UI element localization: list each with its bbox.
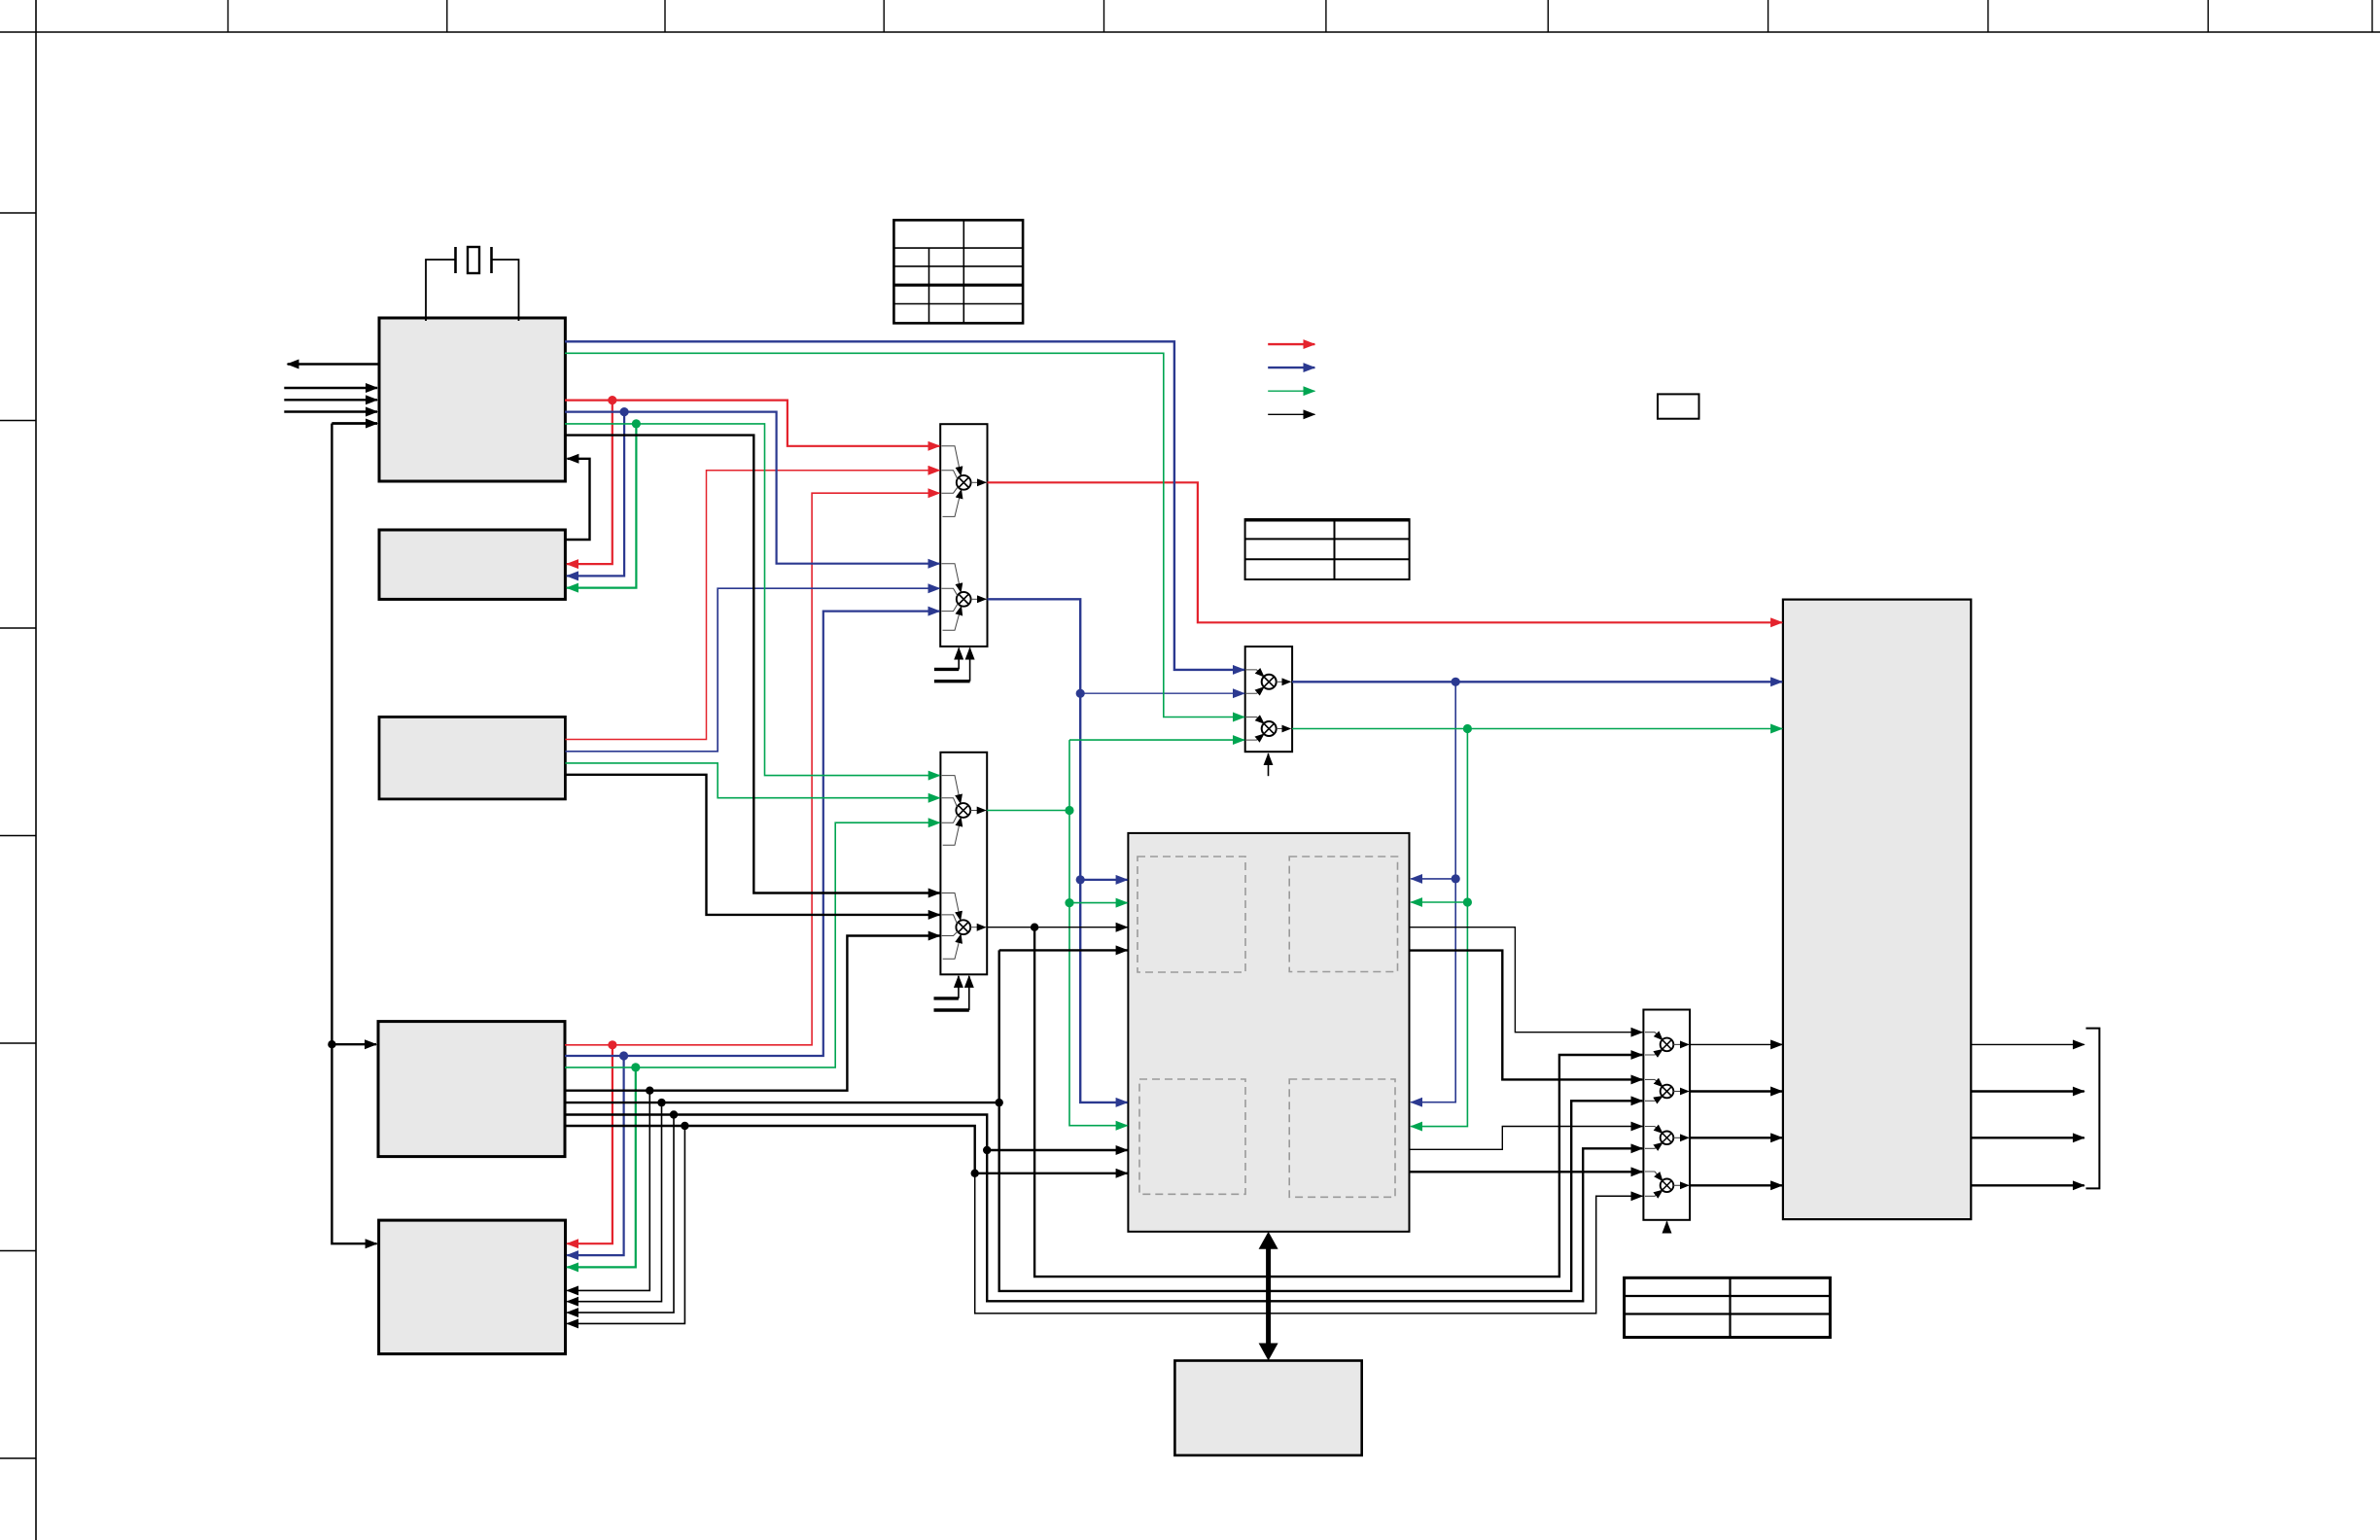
table T2 (1245, 519, 1410, 579)
dashed sub-block U6c (1139, 1079, 1245, 1194)
frame tick top 8 (1767, 0, 1769, 32)
wire K19c branch to block4 (332, 1043, 376, 1045)
frame tick top 10 (2207, 0, 2209, 32)
wire K22a mux2 gain stub1 (934, 997, 959, 999)
mixer M4d (1645, 1172, 1689, 1196)
wire K9 center out1 to mix4 m1a (1410, 927, 1643, 1032)
wire R4 block4 red to mux1 in3 (565, 493, 940, 1045)
mixer M4c (1645, 1127, 1689, 1149)
wire K19b vertical bus (332, 424, 376, 1244)
node black J9 (670, 1110, 678, 1118)
wire B3 blue drop to block2 (567, 412, 624, 577)
wire B7 mux1 blue out vertical bus (988, 599, 1128, 1102)
dashed sub-block U6b (1289, 857, 1397, 972)
wire K22b mux2 gain stub1 arrow (958, 976, 960, 998)
frame tick top 9 (1987, 0, 1989, 32)
wire K5 block4 black3 bus (565, 1115, 1642, 1302)
block U7 output IC (1783, 600, 1971, 1220)
mux block M1 (940, 424, 987, 647)
frame tick top 5 (1103, 0, 1105, 32)
wire R3 block3 red to mux1 in2 (565, 471, 939, 740)
crystal X1 body (468, 247, 479, 273)
mixer M1a (942, 446, 987, 517)
wire K6a into center in4 (975, 1172, 1128, 1174)
wire K6 block4 black4 bus (565, 1126, 975, 1173)
wire B8b branch into center right (1411, 878, 1455, 880)
node green J2 (631, 1063, 640, 1071)
frame tick top 7 (1547, 0, 1549, 32)
legend arrow blue (1268, 367, 1314, 368)
wire K21b mux1 gain stub1 arrow (958, 648, 960, 670)
wire K4b into center in2 (999, 949, 1128, 951)
wire B7a branch to mux3 in2 (1080, 692, 1244, 694)
wire K7a drop to block5 k1 (567, 1091, 649, 1291)
wire K21c mux1 gain stub2 (934, 680, 970, 682)
crystal X1 left plate (454, 247, 457, 273)
sheet frame top border (0, 31, 2380, 33)
frame tick top 11 (2371, 0, 2373, 32)
frame tick left 2 (0, 420, 36, 422)
node green J6 (1463, 897, 1472, 906)
wire R6 mux1 red out to block U7 (988, 482, 1783, 622)
block U5 (379, 1220, 566, 1354)
wire K5a into center in3 (987, 1149, 1127, 1151)
mixer M3b (1246, 717, 1290, 741)
mux block M2 (940, 752, 987, 975)
wire K18c block1 left in3 (284, 410, 377, 412)
wire K22d mux2 gain stub2 arrow (968, 976, 970, 1010)
wire R1 block1 red out to mux1 in1 (565, 401, 940, 446)
wire B1 block1 blue top to mux3 in1 (565, 341, 1244, 670)
wire K13d mix4 out4 (1690, 1184, 1782, 1186)
wire B4 block3 blue to mux1 in5 (565, 588, 939, 752)
block U3 (379, 717, 565, 799)
wire crystal right (492, 260, 519, 321)
wire K24 mix4 gain stub (1666, 1222, 1668, 1233)
wire K12 center out4 to mix4 m4a (1410, 1171, 1643, 1172)
wire K19 left bus to block1 in4 (332, 422, 377, 424)
wire K13a mix4 out1 (1690, 1043, 1782, 1045)
legend arrow black (1268, 413, 1314, 415)
wire G3 green drop to block2 (567, 424, 636, 588)
wire K11 center out3 to mix4 m3a (1410, 1127, 1643, 1150)
node blue J2 (619, 1051, 628, 1060)
node blue J1 (620, 407, 629, 416)
table T3 (1625, 1277, 1831, 1337)
arrowhead up into center (1259, 1232, 1278, 1249)
wire B6 blue drop to block5 (567, 1056, 623, 1255)
block U6 center DSP (1128, 833, 1409, 1232)
wire K17 block1 left out arrow (288, 363, 379, 365)
node red J1 (608, 396, 616, 404)
wire K21a mux1 gain stub1 (934, 668, 959, 671)
wire K18a block1 left in1 (284, 387, 377, 389)
wire G1 block1 green top to mux3 in3 (565, 353, 1244, 717)
wire K10 center out2 to mix4 m2a (1410, 951, 1643, 1080)
wire K7b drop to block5 k2 (567, 1102, 661, 1302)
wire K19a arrowhead into block1 (332, 422, 377, 424)
block U1 main IC (379, 318, 565, 481)
frame tick left 4 (0, 835, 36, 837)
wire K2 block3 black to mux2 in5 (565, 775, 939, 915)
arrowhead down into bottom block (1259, 1344, 1278, 1361)
wire K4a vertical (999, 950, 1643, 1291)
wire K14b block U7 out2 (1971, 1090, 2084, 1092)
mux block M3 (1245, 647, 1292, 752)
mux block M4 (1643, 1010, 1690, 1220)
wire K18b block1 left in2 (284, 399, 377, 401)
mixer M4a (1645, 1032, 1689, 1055)
wire B5 block4 blue to mux1 in6 (565, 612, 940, 1056)
wire G5 block4 green to mux2 in3 (565, 822, 940, 1067)
wire K8 mux2 black out to center in1 (987, 927, 1127, 928)
crystal X1 right plate (490, 247, 493, 273)
sheet frame left border (35, 0, 37, 1540)
output bracket (2086, 1029, 2100, 1189)
node red J2 (608, 1040, 616, 1049)
node green J3 (1065, 806, 1073, 815)
wire K14d block U7 out4 (1971, 1184, 2084, 1186)
node green J5 (1463, 724, 1472, 733)
legend arrow green (1268, 390, 1314, 392)
wire B8 mux3 blue out to block U7 (1292, 681, 1782, 682)
frame tick left 5 (0, 1042, 36, 1044)
node black J10 (681, 1122, 688, 1130)
frame tick top 6 (1325, 0, 1327, 32)
node green J4 (1065, 898, 1073, 907)
frame tick left 1 (0, 212, 36, 214)
frame tick left 6 (0, 1250, 36, 1252)
wire K16 block2 feedback to block1 (565, 459, 589, 540)
wire G7 mux2 green out vertical bus (1069, 739, 1244, 741)
node black J7 (646, 1087, 653, 1095)
dashed sub-block U6d (1289, 1079, 1395, 1197)
node black J6 (971, 1170, 979, 1177)
wire K13c mix4 out3 (1690, 1137, 1782, 1138)
wire G7c branch to center (1069, 902, 1128, 904)
wire G8a green drop right of center (1411, 729, 1467, 1127)
wire G8b branch into center right (1411, 901, 1467, 903)
wire K14a block U7 out1 (1971, 1043, 2084, 1045)
node black J8 (657, 1099, 665, 1106)
block U2 (379, 530, 565, 599)
mixer M2a (942, 776, 986, 846)
node blue J4 (1076, 875, 1085, 884)
node black J5 (983, 1146, 991, 1154)
wire G6 green drop to block5 (567, 1067, 636, 1268)
mixer M2b (942, 893, 986, 960)
node blue J5 (1452, 678, 1460, 686)
wire K6t thin tail to mix4 m4b (975, 1173, 1643, 1313)
wire G7b mux2 out join (987, 810, 1069, 812)
wire R5 red drop to block5 (567, 1045, 612, 1243)
wire K8a U loop to mix4 m1b (1034, 927, 1642, 1277)
legend arrow red (1268, 343, 1314, 345)
frame tick left 3 (0, 627, 36, 629)
wire K21d mux1 gain stub2 arrow (969, 648, 971, 682)
wire K3 block4 black1 to mux2 in6 (565, 936, 940, 1091)
frame tick left 7 (0, 1457, 36, 1459)
wire G2 block1 green to mux2 in1 (565, 424, 940, 776)
table T1 (893, 220, 1023, 323)
wire B8a blue drop right of center (1411, 682, 1455, 1102)
wire R2 red drop to block2 (567, 401, 612, 564)
frame tick top 3 (664, 0, 666, 32)
wire K25 center to bottom block double arrow (1266, 1241, 1271, 1352)
mixer M1b (942, 564, 987, 631)
node green J1 (632, 419, 641, 428)
block U8 bottom memory (1174, 1361, 1361, 1455)
node blue J3 (1076, 689, 1085, 698)
wire K4 block4 black2 bus (565, 1102, 999, 1103)
node black J4 (995, 1099, 1002, 1106)
mixer M4b (1645, 1079, 1689, 1101)
wire B7b branch to center block (1080, 879, 1127, 881)
wire K7c drop to block5 k3 (567, 1115, 674, 1313)
note box (1658, 394, 1699, 418)
wire G4 block3 green to mux2 in2 (565, 763, 939, 798)
block U4 (378, 1022, 565, 1157)
wire K23 mux3 gain stub (1268, 753, 1270, 776)
wire crystal left (426, 260, 456, 321)
frame tick top 2 (446, 0, 448, 32)
wire G7a vertical (1069, 740, 1128, 1126)
wire K22c mux2 gain stub2 (934, 1008, 969, 1011)
wire K14c block U7 out3 (1971, 1137, 2084, 1138)
wire K7d drop to block5 k4 (567, 1126, 684, 1323)
node black J11 (1031, 924, 1038, 931)
frame tick top 1 (227, 0, 229, 32)
frame tick top 4 (883, 0, 885, 32)
wire G8 mux3 green out to block U7 (1292, 728, 1782, 730)
node black J12 (328, 1040, 335, 1048)
wire K13b mix4 out2 (1690, 1090, 1782, 1092)
wire K1 block1 black to mux2 in4 (565, 436, 940, 893)
node blue J6 (1452, 874, 1460, 883)
mixer M3a (1246, 670, 1290, 693)
wire B2 block1 blue to mux1 in4 (565, 412, 940, 564)
dashed sub-block U6a (1137, 857, 1245, 972)
